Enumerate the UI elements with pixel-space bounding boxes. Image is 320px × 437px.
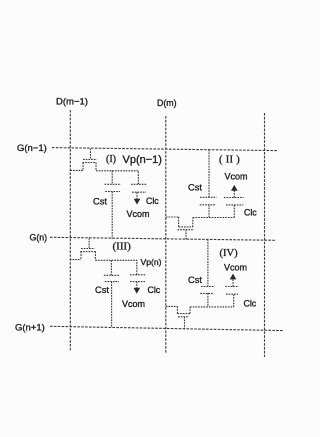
svg-text:Vcom: Vcom: [127, 209, 150, 219]
svg-text:D(m): D(m): [157, 98, 177, 108]
svg-text:( II ): ( II ): [219, 155, 240, 166]
svg-text:Vp(n): Vp(n): [141, 257, 162, 267]
svg-text:(I): (I): [106, 154, 116, 165]
svg-text:(III): (III): [113, 241, 132, 253]
svg-text:Vcom: Vcom: [224, 263, 247, 273]
svg-text:Cst: Cst: [188, 183, 202, 193]
svg-text:Vp(n−1): Vp(n−1): [123, 154, 162, 166]
svg-text:G(n+1): G(n+1): [15, 323, 45, 334]
svg-text:Vcom: Vcom: [122, 299, 145, 309]
svg-text:Clc: Clc: [148, 285, 161, 295]
svg-text:D(m−1): D(m−1): [56, 97, 88, 108]
svg-text:Clc: Clc: [244, 208, 257, 218]
svg-text:(IV): (IV): [220, 248, 239, 259]
svg-text:Clc: Clc: [244, 299, 257, 309]
svg-text:Vcom: Vcom: [225, 172, 248, 182]
svg-text:Clc: Clc: [146, 196, 159, 206]
svg-text:Cst: Cst: [188, 275, 202, 285]
svg-text:Cst: Cst: [95, 285, 109, 295]
svg-text:Cst: Cst: [93, 197, 107, 207]
svg-text:G(n): G(n): [30, 233, 48, 243]
svg-text:G(n−1): G(n−1): [17, 143, 47, 154]
